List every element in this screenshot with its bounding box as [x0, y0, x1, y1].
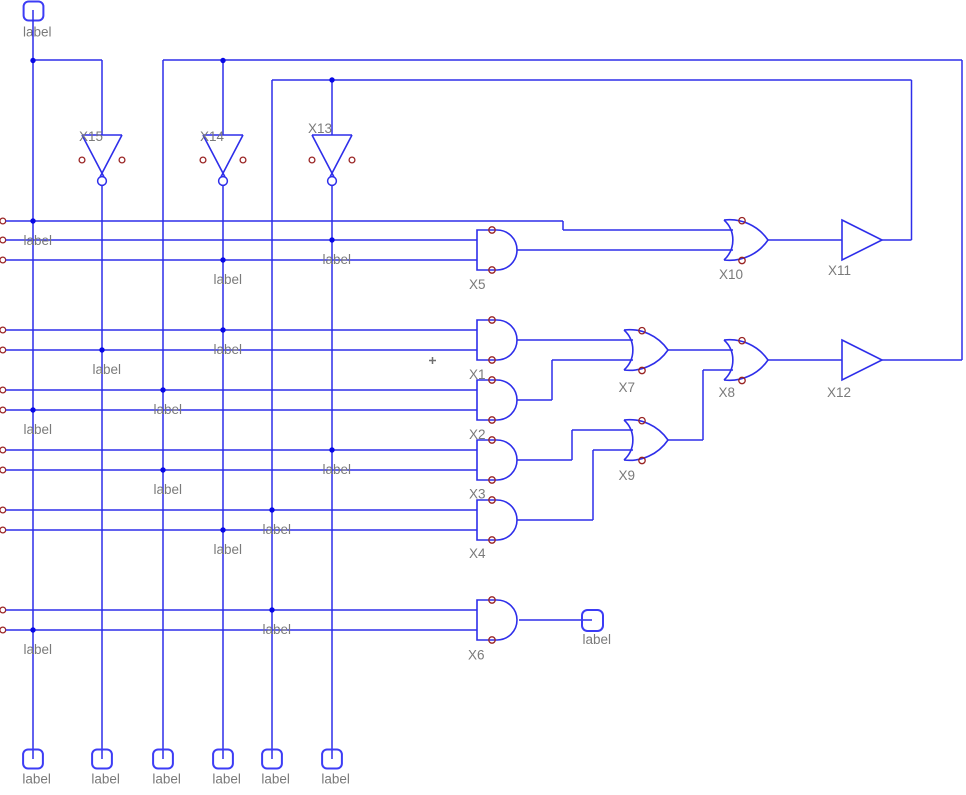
svg-text:label: label	[154, 402, 183, 417]
wire: X4 output run	[517, 519, 593, 521]
buffer X12	[827, 340, 882, 400]
svg-text:X8: X8	[719, 385, 736, 400]
input terminal (open node)	[0, 467, 6, 473]
AND gate X3	[469, 437, 517, 502]
junction at (332,240)	[329, 237, 334, 242]
input terminal (open node)	[0, 507, 6, 513]
wire: input row y=221	[6, 220, 563, 222]
junction at (272,610)	[269, 607, 274, 612]
wire: net x=163 from feedback y=60 to bottom pin 3	[162, 60, 164, 759]
svg-text:X10: X10	[719, 267, 743, 282]
junction: top pin net / X15 branch	[30, 58, 35, 63]
wire: input row y=530	[6, 529, 477, 531]
wire: X7 output to X8 input 1	[668, 349, 733, 351]
wire: into X9 input 1	[572, 429, 633, 431]
svg-text:label: label	[24, 422, 53, 437]
wire: X2-to-X7 jog up	[551, 360, 553, 400]
wire: input row y=630	[6, 629, 477, 631]
input terminal (open node)	[0, 347, 6, 353]
wire: X9-to-X8 jog up	[702, 370, 704, 440]
wire: X11 feedback top run (y=80)	[272, 79, 912, 81]
OR gate X10	[719, 218, 768, 283]
wire: X5 output to X10 input 2	[517, 249, 733, 251]
wire: input row y=390	[6, 389, 477, 391]
wire: input row y=240	[6, 239, 477, 241]
svg-text:label: label	[22, 772, 51, 787]
wire: X4-to-X9 jog up	[592, 450, 594, 520]
input terminal (open node)	[0, 407, 6, 413]
output pin (bottom 4), label	[212, 750, 241, 787]
AND gate X5	[469, 227, 517, 292]
output pin (bottom 2), label	[91, 750, 120, 787]
wire: input row y=350	[6, 349, 477, 351]
wire: branch from top pin net to X15 input	[33, 59, 102, 61]
svg-text:label: label	[261, 772, 290, 787]
wire: inverter X13 output down to bottom pin 6	[331, 186, 333, 759]
svg-text:label: label	[23, 25, 52, 40]
svg-text:label: label	[583, 632, 612, 647]
wire: into X8 input 2	[703, 369, 733, 371]
output pin (bottom 6), label	[321, 750, 350, 787]
output pin (bottom 5), label	[261, 750, 290, 787]
junction at (33,630)	[30, 627, 35, 632]
junction at (272,510)	[269, 507, 274, 512]
wire: into X7 input 2	[552, 359, 633, 361]
junction at (163,470)	[160, 467, 165, 472]
wire: net x=272 from feedback y=80 to bottom pin 5	[271, 80, 273, 759]
OR gate X8	[719, 338, 769, 401]
wire: net from top pin down to bottom pin 1 (x=33)	[32, 10, 34, 759]
input pin (top), label	[23, 2, 52, 40]
svg-text:label: label	[214, 272, 243, 287]
svg-text:label: label	[263, 622, 292, 637]
wire: row-1 into X10 input 1	[563, 229, 733, 231]
wire: X11 output to feedback riser	[882, 239, 912, 241]
wire: inverter X14 output down to bottom pin 4	[222, 186, 224, 759]
svg-text:label: label	[321, 772, 350, 787]
input terminal (open node)	[0, 237, 6, 243]
junction: y=80 feedback / X13 input	[329, 77, 334, 82]
AND gate X2	[469, 377, 517, 442]
junction at (223,330)	[220, 327, 225, 332]
output pin (X6 result), label	[582, 610, 611, 647]
junction at (33,410)	[30, 407, 35, 412]
AND gate X4	[469, 497, 517, 561]
svg-text:X5: X5	[469, 277, 486, 292]
OR gate X9	[619, 418, 669, 484]
junction at (163,390)	[160, 387, 165, 392]
buffer X11	[828, 220, 882, 278]
input terminal (open node)	[0, 527, 6, 533]
junction at (223,530)	[220, 527, 225, 532]
wire: input row y=510	[6, 509, 477, 511]
wire: X6 output to output pin	[519, 619, 592, 621]
wire: X11 feedback riser (x=911.5)	[911, 80, 913, 240]
wire: input row y=410	[6, 409, 477, 411]
input terminal (open node)	[0, 327, 6, 333]
wire: X1 output to X7 input 1	[517, 339, 633, 341]
OR gate X7	[619, 328, 669, 396]
svg-text:X11: X11	[828, 263, 851, 278]
svg-text:label: label	[154, 482, 183, 497]
wire: input row y=260	[6, 259, 477, 261]
AND gate X1	[469, 317, 517, 382]
svg-text:label: label	[91, 772, 120, 787]
input terminal (open node)	[0, 607, 6, 613]
wire: X3-to-X9 jog up	[571, 430, 573, 460]
wire: input row y=470	[6, 469, 477, 471]
output pin (bottom 3), label	[152, 750, 181, 787]
input terminal (open node)	[0, 257, 6, 263]
wire: X12 feedback riser (x=962)	[961, 60, 963, 360]
junction: y=60 feedback / X14 input	[220, 58, 225, 63]
input terminal (open node)	[0, 627, 6, 633]
input terminal (open node)	[0, 387, 6, 393]
wire: inverter X15 input drop (x=102)	[101, 60, 103, 135]
svg-text:label: label	[214, 542, 243, 557]
wire: input row y=330	[6, 329, 477, 331]
inverter X14 (pointing down)	[200, 129, 246, 185]
svg-text:X4: X4	[469, 546, 486, 561]
svg-text:X14: X14	[200, 129, 225, 144]
input terminal (open node)	[0, 218, 6, 224]
wire: into X9 input 2	[593, 449, 633, 451]
wire: row-1 jog down	[562, 221, 564, 230]
svg-text:label: label	[152, 772, 181, 787]
wire: X12 feedback top run (y=60)	[163, 59, 962, 61]
inverter X13 (pointing down)	[308, 121, 355, 185]
wire: input row y=610	[6, 609, 477, 611]
"+" annotation	[429, 357, 436, 364]
input terminal (open node)	[0, 447, 6, 453]
svg-text:X9: X9	[619, 468, 636, 483]
svg-text:X12: X12	[827, 385, 851, 400]
wire: X10 output to X11 input	[768, 239, 842, 241]
junction at (102,350)	[99, 347, 104, 352]
svg-text:label: label	[214, 342, 243, 357]
wire: inverter X14 input drop (x=223)	[222, 60, 224, 135]
svg-text:X15: X15	[79, 129, 103, 144]
wire: X8 output to X12 input	[768, 359, 842, 361]
wire: X2 output run	[517, 399, 552, 401]
wire: X3 output run	[517, 459, 572, 461]
inverter X15 (pointing down)	[79, 129, 125, 185]
svg-text:X13: X13	[308, 121, 332, 136]
output pin (bottom 1), label	[22, 750, 51, 787]
wire: X9 output run	[668, 439, 703, 441]
wire: X12 output to feedback riser	[882, 359, 962, 361]
wire: input row y=450	[6, 449, 477, 451]
svg-text:label: label	[24, 233, 53, 248]
svg-text:X7: X7	[619, 380, 636, 395]
svg-text:label: label	[323, 462, 352, 477]
svg-text:label: label	[24, 642, 53, 657]
svg-text:label: label	[263, 522, 292, 537]
junction at (223,260)	[220, 257, 225, 262]
svg-text:label: label	[323, 252, 352, 267]
junction at (33,221)	[30, 218, 35, 223]
svg-text:label: label	[212, 772, 241, 787]
wire: inverter X15 output down to bottom pin 2	[101, 186, 103, 759]
AND gate X6	[468, 597, 517, 663]
svg-text:X6: X6	[468, 648, 485, 663]
wire: inverter X13 input drop (x=332)	[331, 80, 333, 135]
junction at (332,450)	[329, 447, 334, 452]
svg-text:label: label	[93, 362, 122, 377]
